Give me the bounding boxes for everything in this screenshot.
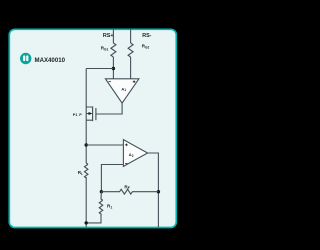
svg-text:RS-: RS- xyxy=(142,33,151,39)
wire RS- vertical xyxy=(130,29,132,43)
wire R1 to bottom junction xyxy=(86,214,101,223)
wire RG1 to A1 xyxy=(112,57,114,79)
wire A1 output to gate xyxy=(96,103,122,114)
op-amp A1 xyxy=(105,79,138,103)
transistor P1 xyxy=(73,106,96,121)
resistor R1 xyxy=(99,192,103,214)
node junction B xyxy=(85,143,88,146)
node junction D xyxy=(157,190,160,193)
resistor RG1 xyxy=(111,43,116,57)
resistor RL xyxy=(84,163,88,178)
svg-text:A2: A2 xyxy=(129,152,134,158)
resistor RG2 xyxy=(128,43,133,57)
wire RS+ vertical xyxy=(112,29,114,43)
wire to A2 plus xyxy=(86,144,123,146)
panel xyxy=(9,29,176,227)
wire A2 minus feedback xyxy=(101,165,123,191)
wire A2 output xyxy=(148,153,159,227)
logo xyxy=(20,53,31,64)
node junction C xyxy=(100,190,103,193)
wire left rail xyxy=(85,69,87,164)
node junction A xyxy=(112,67,115,70)
svg-text:RS+: RS+ xyxy=(103,33,114,39)
svg-text:A1: A1 xyxy=(121,86,126,92)
wire RG2 to A1 xyxy=(130,57,132,79)
svg-text:P1: P1 xyxy=(73,113,78,117)
wire RL to bottom xyxy=(85,177,87,227)
op-amp A2 xyxy=(123,140,147,167)
svg-text:MAX40010: MAX40010 xyxy=(35,57,66,64)
resistor RF xyxy=(101,189,158,194)
node junction E xyxy=(85,221,88,224)
wire A1 feedback to rail xyxy=(86,68,113,70)
